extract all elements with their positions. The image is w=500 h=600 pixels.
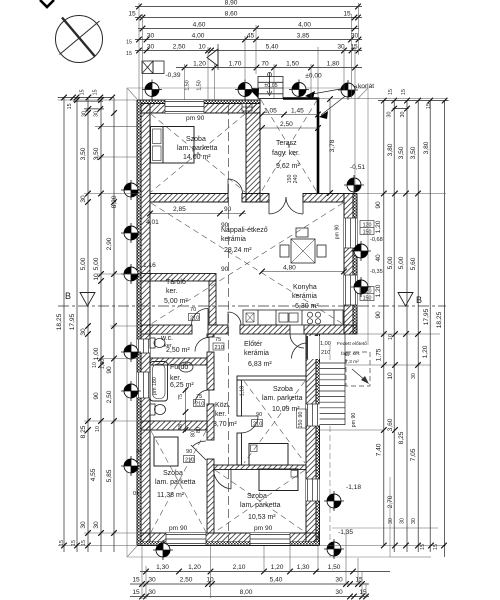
svg-text:2,70: 2,70 bbox=[387, 495, 394, 508]
svg-text:30: 30 bbox=[147, 44, 155, 51]
svg-text:90: 90 bbox=[256, 412, 262, 418]
svg-text:lam. parketta: lam. parketta bbox=[240, 502, 281, 509]
svg-text:30: 30 bbox=[335, 589, 343, 596]
svg-text:30: 30 bbox=[93, 521, 100, 529]
wall east lower bbox=[316, 334, 320, 545]
svg-text:90: 90 bbox=[93, 392, 100, 400]
svg-text:Szoba: Szoba bbox=[247, 493, 267, 500]
svg-text:1,70: 1,70 bbox=[229, 61, 242, 68]
svg-text:1,20: 1,20 bbox=[188, 564, 201, 571]
room label szoba1138 bbox=[155, 470, 196, 499]
svg-text:7,3 m²: 7,3 m² bbox=[345, 359, 359, 365]
room label szoba1053 bbox=[240, 493, 281, 521]
section line B-B bbox=[58, 305, 446, 307]
svg-text:5,00: 5,00 bbox=[387, 256, 394, 269]
svg-text:3,80: 3,80 bbox=[387, 143, 394, 156]
svg-text:lam. parketta: lam. parketta bbox=[177, 145, 218, 152]
svg-text:15: 15 bbox=[132, 577, 140, 584]
door furdo bbox=[208, 390, 210, 404]
terasz outline thick bbox=[260, 99, 318, 194]
svg-text:15: 15 bbox=[132, 589, 140, 596]
svg-text:10: 10 bbox=[206, 577, 214, 584]
svg-text:Terasz: Terasz bbox=[276, 140, 297, 147]
wall H2 bbox=[141, 325, 192, 334]
svg-text:Szoba: Szoba bbox=[163, 470, 183, 477]
kitchen counter bbox=[243, 310, 343, 325]
svg-text:28,24 m²: 28,24 m² bbox=[224, 247, 252, 254]
svg-text:30: 30 bbox=[80, 521, 87, 529]
svg-text:5,00: 5,00 bbox=[93, 257, 100, 270]
svg-text:7,05: 7,05 bbox=[410, 448, 417, 461]
svg-text:4,01: 4,01 bbox=[146, 219, 159, 226]
svg-text:4,00: 4,00 bbox=[192, 33, 205, 40]
svg-text:1,30: 1,30 bbox=[156, 564, 169, 571]
room label terasz bbox=[272, 140, 300, 170]
svg-text:90: 90 bbox=[375, 201, 382, 209]
niche top wall bbox=[242, 104, 252, 112]
svg-text:4,55: 4,55 bbox=[90, 468, 97, 481]
svg-text:1,20: 1,20 bbox=[271, 564, 284, 571]
wall szoba1009 north bbox=[237, 376, 306, 380]
svg-text:15: 15 bbox=[128, 11, 136, 18]
svg-text:90: 90 bbox=[298, 412, 304, 418]
svg-text:5,00: 5,00 bbox=[398, 256, 405, 269]
svg-text:90: 90 bbox=[224, 206, 232, 213]
window north szoba bbox=[165, 100, 204, 113]
svg-text:pm 90: pm 90 bbox=[254, 525, 273, 532]
svg-text:1,30: 1,30 bbox=[297, 564, 310, 571]
svg-text:1,20: 1,20 bbox=[422, 345, 429, 358]
svg-text:3,60: 3,60 bbox=[387, 418, 394, 431]
svg-text:30: 30 bbox=[148, 589, 156, 596]
svg-text:75: 75 bbox=[215, 337, 221, 343]
svg-text:1,80: 1,80 bbox=[327, 61, 340, 68]
room label szoba1009 bbox=[262, 386, 303, 413]
svg-text:150: 150 bbox=[298, 420, 304, 429]
svg-text:pm 90: pm 90 bbox=[169, 525, 188, 532]
svg-text:korlát: korlát bbox=[358, 83, 374, 90]
svg-text:30: 30 bbox=[80, 328, 87, 336]
svg-text:Közl.: Közl. bbox=[215, 402, 231, 409]
svg-text:fagy. ker.: fagy. ker. bbox=[341, 351, 360, 357]
svg-text:lam. parketta: lam. parketta bbox=[262, 395, 303, 402]
bed szoba1009 bbox=[249, 444, 288, 466]
svg-text:15: 15 bbox=[80, 89, 86, 95]
window east szoba1053 bbox=[306, 479, 320, 501]
room label furdo bbox=[170, 364, 194, 389]
svg-text:Fedett előtető: Fedett előtető bbox=[337, 341, 367, 347]
label fedett elotető bbox=[337, 341, 367, 365]
svg-text:1,75: 1,75 bbox=[376, 348, 383, 361]
svg-text:-0,39: -0,39 bbox=[165, 72, 180, 79]
svg-text:15: 15 bbox=[71, 540, 77, 546]
svg-text:5,40: 5,40 bbox=[266, 44, 279, 51]
svg-text:75: 75 bbox=[178, 394, 184, 400]
svg-text:30: 30 bbox=[351, 33, 359, 40]
window south right bbox=[250, 533, 290, 545]
svg-text:80: 80 bbox=[196, 427, 202, 433]
svg-text:3,85: 3,85 bbox=[297, 33, 310, 40]
room label kozl bbox=[213, 402, 237, 428]
svg-text:8,25: 8,25 bbox=[398, 431, 405, 444]
svg-text:pm 90: pm 90 bbox=[351, 413, 357, 428]
svg-text:Tároló: Tároló bbox=[166, 279, 186, 286]
wall taroló east bbox=[209, 281, 216, 325]
section marker B left bbox=[80, 293, 95, 307]
axis markers bbox=[121, 80, 371, 561]
dashed roof diagonals bbox=[151, 100, 343, 532]
svg-text:15: 15 bbox=[401, 89, 407, 95]
svg-text:1,18: 1,18 bbox=[240, 386, 246, 396]
svg-text:Szoba: Szoba bbox=[186, 136, 206, 143]
svg-text:1,20: 1,20 bbox=[193, 61, 206, 68]
basin furdo bottom bbox=[150, 404, 166, 415]
svg-text:70: 70 bbox=[261, 61, 269, 68]
svg-text:2,50: 2,50 bbox=[173, 44, 186, 51]
svg-text:30: 30 bbox=[147, 33, 155, 40]
svg-text:5,00: 5,00 bbox=[80, 257, 87, 270]
svg-text:210: 210 bbox=[215, 345, 224, 351]
svg-text:3,50: 3,50 bbox=[80, 147, 87, 160]
svg-text:70: 70 bbox=[190, 307, 196, 313]
svg-text:11,38 m²: 11,38 m² bbox=[157, 492, 185, 499]
svg-text:210: 210 bbox=[321, 350, 330, 356]
svg-text:8,00: 8,00 bbox=[240, 589, 253, 596]
svg-text:14,00 m²: 14,00 m² bbox=[183, 154, 211, 161]
svg-text:15: 15 bbox=[420, 544, 426, 550]
svg-text:30: 30 bbox=[400, 112, 406, 118]
svg-text:3,50: 3,50 bbox=[93, 147, 100, 160]
svg-text:4,60: 4,60 bbox=[193, 22, 206, 29]
svg-text:Szoba: Szoba bbox=[273, 386, 293, 393]
svg-text:150: 150 bbox=[363, 230, 372, 236]
svg-text:10: 10 bbox=[388, 334, 394, 340]
svg-text:30: 30 bbox=[80, 195, 87, 203]
svg-text:5,60: 5,60 bbox=[410, 257, 417, 270]
wall south bbox=[141, 533, 319, 542]
svg-text:4,00: 4,00 bbox=[298, 22, 311, 29]
svg-text:240: 240 bbox=[293, 175, 299, 184]
svg-text:10: 10 bbox=[95, 426, 101, 432]
svg-text:2,50: 2,50 bbox=[106, 390, 113, 403]
svg-text:210: 210 bbox=[253, 422, 262, 428]
svg-text:18,25: 18,25 bbox=[436, 311, 443, 328]
room label elotér bbox=[244, 341, 272, 368]
svg-text:6,25 m²: 6,25 m² bbox=[170, 382, 194, 389]
triangle symbol bbox=[207, 49, 218, 66]
svg-text:30: 30 bbox=[335, 577, 343, 584]
svg-text:30: 30 bbox=[93, 111, 99, 117]
svg-text:4,80: 4,80 bbox=[283, 265, 296, 272]
svg-text:-1,18: -1,18 bbox=[346, 484, 361, 491]
svg-text:8,60: 8,60 bbox=[225, 11, 238, 18]
svg-text:30: 30 bbox=[148, 577, 156, 584]
svg-text:1,50: 1,50 bbox=[197, 80, 203, 90]
terasz entry arrow bbox=[248, 88, 259, 99]
svg-text:pm 180: pm 180 bbox=[152, 377, 158, 395]
svg-text:3,50: 3,50 bbox=[398, 146, 405, 159]
door szoba1138 bbox=[191, 445, 206, 460]
svg-text:120: 120 bbox=[363, 289, 372, 295]
svg-text:90: 90 bbox=[375, 311, 382, 319]
svg-text:15: 15 bbox=[388, 89, 394, 95]
window east nappali bbox=[344, 218, 357, 248]
svg-text:10: 10 bbox=[93, 273, 100, 281]
svg-text:Fürdő: Fürdő bbox=[170, 364, 188, 371]
konyha dim bbox=[259, 269, 347, 275]
room label wc bbox=[160, 335, 190, 354]
svg-text:1,50: 1,50 bbox=[185, 80, 191, 90]
svg-text:B: B bbox=[416, 295, 422, 305]
svg-text:Előtér: Előtér bbox=[244, 341, 263, 348]
svg-text:210: 210 bbox=[185, 458, 194, 464]
wall szoba-terasz bbox=[246, 104, 260, 203]
svg-text:-1,35: -1,35 bbox=[338, 529, 353, 536]
svg-text:pm 90: pm 90 bbox=[335, 225, 341, 240]
svg-text:40: 40 bbox=[375, 254, 382, 262]
svg-text:90: 90 bbox=[221, 222, 229, 229]
svg-text:120: 120 bbox=[363, 223, 372, 229]
svg-text:210: 210 bbox=[190, 316, 199, 322]
svg-text:-0,35: -0,35 bbox=[370, 269, 383, 275]
svg-text:84: 84 bbox=[136, 449, 142, 455]
wall taroló north bbox=[141, 274, 216, 282]
svg-text:10: 10 bbox=[198, 44, 206, 51]
right dimension block bbox=[378, 101, 449, 557]
door konyha bbox=[290, 333, 304, 335]
svg-text:30: 30 bbox=[388, 518, 394, 524]
svg-text:5,00 m²: 5,00 m² bbox=[164, 298, 188, 305]
window east konyha bbox=[344, 275, 357, 305]
svg-text:15: 15 bbox=[67, 103, 73, 109]
svg-text:17,95: 17,95 bbox=[69, 313, 76, 330]
svg-text:1,20: 1,20 bbox=[375, 220, 382, 233]
left dimension block bbox=[58, 98, 114, 553]
svg-text:3,80: 3,80 bbox=[423, 141, 430, 154]
exterior walls bbox=[137, 100, 357, 546]
top dimension block bbox=[135, 7, 362, 68]
door szoba1053 bbox=[230, 469, 232, 489]
svg-text:7,40: 7,40 bbox=[376, 443, 383, 456]
sink bbox=[279, 313, 288, 322]
section marker B right bbox=[398, 293, 413, 307]
wardrobe szoba1138 bbox=[154, 437, 178, 466]
svg-text:90: 90 bbox=[221, 266, 229, 273]
svg-text:90: 90 bbox=[106, 366, 113, 374]
svg-text:5,85: 5,85 bbox=[106, 469, 113, 482]
door szoba1009 bbox=[241, 415, 258, 417]
svg-text:2,50: 2,50 bbox=[180, 577, 193, 584]
window west wc bbox=[137, 339, 150, 353]
dashed ridge line bbox=[228, 106, 230, 545]
basin furdo top bbox=[179, 362, 193, 372]
svg-text:15: 15 bbox=[126, 40, 132, 46]
svg-text:45: 45 bbox=[247, 33, 255, 40]
svg-text:15: 15 bbox=[433, 544, 439, 550]
wall szoba1009 west bbox=[237, 380, 242, 416]
svg-text:1,05: 1,05 bbox=[264, 108, 277, 115]
svg-text:01: 01 bbox=[133, 491, 139, 497]
window west furdo bbox=[137, 372, 150, 398]
bed szoba TL bbox=[151, 127, 195, 164]
svg-text:ker.: ker. bbox=[215, 411, 226, 418]
svg-text:6,30 m²: 6,30 m² bbox=[295, 303, 319, 310]
door size labels bbox=[190, 307, 331, 418]
scale symbol bbox=[142, 61, 164, 74]
svg-text:15: 15 bbox=[92, 89, 98, 95]
interior walls bbox=[141, 274, 357, 534]
svg-text:9,62 m²: 9,62 m² bbox=[276, 163, 300, 170]
svg-text:1,16: 1,16 bbox=[143, 262, 156, 269]
svg-text:-0,51: -0,51 bbox=[350, 164, 365, 171]
room label taroló bbox=[164, 279, 188, 305]
svg-text:48: 48 bbox=[178, 424, 184, 430]
svg-text:90: 90 bbox=[186, 449, 192, 455]
bathtub bbox=[150, 362, 168, 402]
window size boxes east bbox=[360, 221, 374, 301]
terasz dims bbox=[259, 112, 321, 131]
door szoba TL bbox=[227, 179, 229, 194]
door entrance bbox=[306, 336, 320, 359]
wall west bbox=[137, 100, 141, 545]
svg-text:1,20: 1,20 bbox=[375, 284, 382, 297]
bottom dimension block bbox=[130, 572, 390, 597]
svg-text:ker.: ker. bbox=[166, 288, 177, 295]
svg-text:2,85: 2,85 bbox=[173, 206, 186, 213]
wall east upper bbox=[353, 194, 357, 335]
svg-text:10: 10 bbox=[92, 362, 98, 368]
north symbol bbox=[40, 0, 103, 63]
svg-text:15: 15 bbox=[126, 51, 132, 57]
wall szoba1009/1053 divider bbox=[214, 465, 306, 470]
svg-text:kerámia: kerámia bbox=[292, 293, 317, 300]
door wc bbox=[208, 338, 210, 352]
svg-text:15: 15 bbox=[81, 540, 87, 546]
dining table and chairs bbox=[280, 228, 326, 263]
wall north bbox=[141, 100, 260, 104]
wc toilet bbox=[150, 338, 165, 348]
svg-text:15: 15 bbox=[426, 103, 432, 109]
window south left bbox=[166, 533, 206, 545]
stove bbox=[307, 312, 312, 317]
svg-text:2,50 m²: 2,50 m² bbox=[166, 347, 190, 354]
svg-text:-0,68: -0,68 bbox=[370, 237, 383, 243]
svg-text:w.c.: w.c. bbox=[160, 335, 173, 342]
svg-text:1,50: 1,50 bbox=[328, 564, 341, 571]
svg-text:18,25: 18,25 bbox=[56, 313, 63, 330]
svg-text:150: 150 bbox=[363, 296, 372, 302]
roof eave outline bbox=[127, 88, 390, 557]
wall V2 wc-furdo east bbox=[207, 334, 214, 337]
window east szoba1009 bbox=[306, 404, 320, 426]
room label konyha bbox=[292, 284, 319, 310]
svg-text:ker.: ker. bbox=[170, 375, 181, 382]
svg-text:3,50: 3,50 bbox=[410, 146, 417, 159]
top extension lines bbox=[139, 3, 359, 193]
svg-text:1,00: 1,00 bbox=[320, 341, 331, 347]
svg-text:1,00: 1,00 bbox=[93, 347, 100, 360]
door terasz double bbox=[268, 197, 270, 214]
svg-text:75: 75 bbox=[196, 394, 202, 400]
svg-text:1,45: 1,45 bbox=[291, 108, 304, 115]
svg-text:30: 30 bbox=[387, 112, 393, 118]
svg-text:2,10: 2,10 bbox=[233, 564, 246, 571]
svg-text:B: B bbox=[65, 291, 71, 301]
svg-text:10,09 m²: 10,09 m² bbox=[272, 406, 300, 413]
porch arrow bbox=[352, 369, 366, 381]
svg-text:30: 30 bbox=[411, 518, 417, 524]
svg-text:15: 15 bbox=[59, 540, 65, 546]
bottom extension lines bbox=[142, 529, 366, 599]
svg-text:1,50: 1,50 bbox=[286, 61, 299, 68]
svg-text:30: 30 bbox=[411, 373, 417, 379]
svg-text:30: 30 bbox=[81, 111, 87, 117]
svg-text:15: 15 bbox=[343, 11, 351, 18]
door elotér-nappali bbox=[227, 312, 229, 325]
svg-text:10: 10 bbox=[387, 372, 394, 380]
terasz steps top bbox=[258, 73, 283, 99]
svg-text:80: 80 bbox=[191, 431, 197, 437]
svg-text:kerámia: kerámia bbox=[221, 236, 246, 243]
svg-text:2,90: 2,90 bbox=[106, 237, 113, 250]
porch dashed outline bbox=[346, 352, 370, 386]
svg-text:8,25: 8,25 bbox=[80, 425, 87, 438]
room label szoba TL bbox=[177, 136, 218, 161]
svg-text:6,83 m²: 6,83 m² bbox=[248, 361, 272, 368]
svg-text:10,53 m²: 10,53 m² bbox=[248, 514, 276, 521]
svg-text:2,50: 2,50 bbox=[280, 121, 293, 128]
door taroló bbox=[207, 309, 209, 326]
svg-text:210: 210 bbox=[195, 402, 204, 408]
wall H1 nappali north bbox=[150, 194, 228, 203]
svg-text:17,95: 17,95 bbox=[423, 308, 430, 325]
doors bbox=[191, 179, 320, 489]
svg-text:3,70 m²: 3,70 m² bbox=[213, 421, 237, 428]
stairs east bbox=[320, 334, 346, 425]
wall wc-furdo divider bbox=[150, 358, 207, 365]
room label nappali bbox=[221, 227, 268, 254]
svg-text:±0,00: ±0,00 bbox=[305, 73, 322, 80]
svg-text:Konyha: Konyha bbox=[293, 284, 317, 291]
bed szoba1053 bbox=[259, 469, 298, 491]
wall H4 over szoba1138 bbox=[141, 421, 207, 430]
svg-text:8,20: 8,20 bbox=[111, 195, 118, 208]
svg-text:3,78: 3,78 bbox=[329, 139, 336, 152]
svg-text:fagy. ker.: fagy. ker. bbox=[272, 150, 300, 157]
svg-text:8,90: 8,90 bbox=[225, 0, 238, 7]
svg-text:5,40: 5,40 bbox=[270, 577, 283, 584]
svg-text:pm 90: pm 90 bbox=[186, 115, 205, 122]
svg-text:kerámia: kerámia bbox=[244, 350, 269, 357]
svg-text:lam. parketta: lam. parketta bbox=[155, 479, 196, 486]
svg-text:30: 30 bbox=[400, 518, 406, 524]
svg-text:±0,05: ±0,05 bbox=[264, 83, 277, 89]
